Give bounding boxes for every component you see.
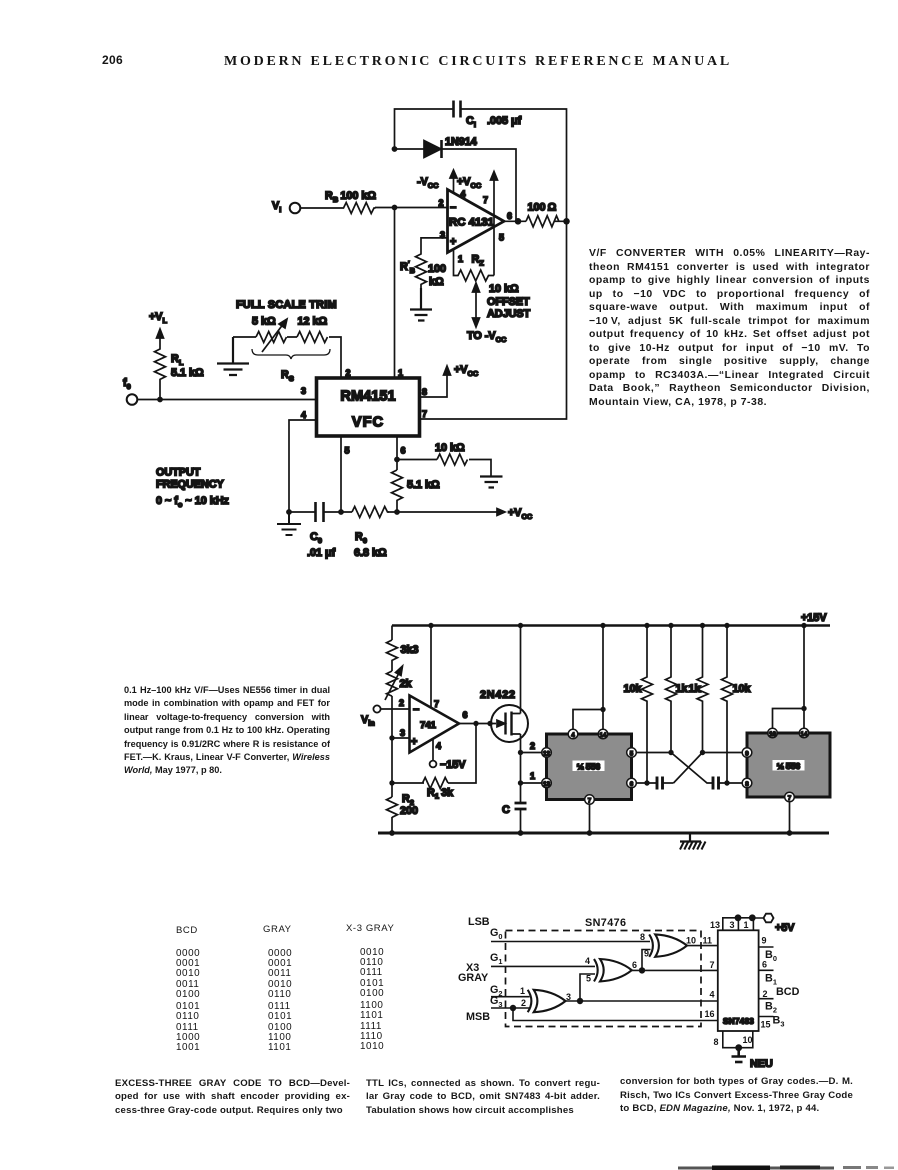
ground symbol NEU	[732, 1048, 773, 1070]
svg-text:6.8 kΩ: 6.8 kΩ	[354, 547, 387, 559]
wire f0 to pin3	[138, 399, 317, 401]
node feedback junction	[473, 721, 478, 726]
caption: excess-three col 1	[115, 1077, 350, 1118]
svg-text:OUTPUT: OUTPUT	[156, 467, 201, 479]
IC left half-556	[547, 734, 632, 800]
svg-text:2: 2	[763, 989, 768, 999]
truth table	[0, 0, 1, 1]
caption: excess-three col 2	[366, 1077, 600, 1118]
output wires right	[759, 947, 774, 1017]
resistor R'B 100k	[400, 252, 446, 288]
wire G3	[491, 1007, 530, 1009]
page title	[29, 54, 898, 70]
svg-text:CI .005 μf: CI .005 μf	[466, 115, 522, 129]
pin circles right 556	[742, 728, 809, 802]
node gate2 output	[639, 967, 645, 973]
wire gate3 output to pin11	[687, 945, 718, 947]
node C ground rail junction	[518, 830, 524, 836]
svg-text:.01 μf: .01 μf	[307, 547, 336, 559]
chassis ground symbol	[680, 833, 706, 850]
svg-text:5.1 kΩ: 5.1 kΩ	[407, 479, 440, 491]
wire pin5	[340, 436, 342, 512]
svg-text:7: 7	[788, 795, 792, 802]
svg-text:10k: 10k	[624, 683, 643, 695]
+VCC supply arrow pin7	[457, 172, 498, 276]
capacitor C0	[307, 502, 336, 559]
svg-text:1: 1	[520, 986, 525, 996]
resistor R2 200	[387, 793, 419, 817]
svg-text:10: 10	[743, 1035, 753, 1045]
svg-text:+VCC: +VCC	[508, 507, 533, 521]
wire pin7 to rail	[430, 626, 432, 709]
svg-text:+VCC: +VCC	[454, 364, 479, 378]
svg-text:6: 6	[463, 710, 468, 720]
resistor 5.1k vertical	[392, 470, 441, 512]
wire gate1 output to pin4	[566, 1000, 718, 1002]
svg-text:9: 9	[745, 751, 749, 758]
node: inverting input junction	[392, 205, 398, 211]
svg-text:RS: RS	[281, 369, 294, 383]
svg-text:GRAY: GRAY	[458, 972, 489, 984]
pin labels SN7483 right	[761, 936, 800, 1030]
svg-text:4: 4	[571, 732, 575, 739]
dashed box SN7476	[506, 931, 702, 1027]
terminal VI	[272, 200, 300, 214]
caption: 0.1Hz-100kHz V/F paragraph	[124, 684, 330, 778]
svg-text:−: −	[450, 202, 456, 214]
node RL junction	[157, 397, 163, 403]
svg-text:4: 4	[710, 990, 715, 1000]
svg-text:½ 556: ½ 556	[777, 761, 801, 771]
svg-text:RZ: RZ	[472, 254, 485, 268]
svg-text:6: 6	[632, 960, 637, 970]
svg-text:f0: f0	[123, 377, 131, 391]
input divider vertical wire	[391, 626, 393, 834]
svg-text:B3: B3	[773, 1015, 785, 1029]
svg-text:SN7476: SN7476	[585, 917, 626, 929]
resistor 12k	[297, 332, 328, 343]
svg-text:5: 5	[630, 751, 634, 758]
svg-text:7: 7	[422, 409, 427, 419]
XOR gate 1	[528, 990, 566, 1012]
wire gate2 output to pin7	[632, 969, 718, 971]
feedback wire + resistor R1 3k	[389, 724, 476, 801]
resistor RZ offset	[454, 250, 495, 281]
svg-text:R′B: R′B	[400, 259, 415, 275]
wire pins 10-14 tie to rail	[773, 626, 805, 729]
page number	[102, 53, 123, 67]
svg-text:14: 14	[801, 731, 808, 738]
svg-text:12 kΩ: 12 kΩ	[298, 316, 328, 328]
wire diode branch	[395, 149, 517, 222]
svg-text:9: 9	[762, 936, 767, 946]
capacitor C	[502, 803, 527, 833]
wire pin3	[421, 238, 448, 252]
svg-text:NEU: NEU	[750, 1058, 773, 1070]
resistor 1k #2	[689, 623, 709, 753]
wire right vertical to RM4151 pin7	[420, 221, 567, 419]
svg-text:6: 6	[401, 446, 406, 456]
node: diode-loop junction	[392, 146, 398, 152]
svg-text:R0: R0	[355, 531, 367, 545]
node pin13 branch junction	[518, 780, 523, 785]
svg-text:10k: 10k	[733, 683, 752, 695]
svg-text:2: 2	[399, 698, 404, 708]
wire pin8 +VCC	[420, 364, 479, 397]
svg-text:1k: 1k	[689, 683, 702, 695]
svg-text:+: +	[411, 736, 417, 748]
node: output right junction	[563, 218, 570, 225]
wire pin4	[289, 420, 317, 512]
svg-text:13: 13	[543, 781, 550, 788]
terminal f0	[123, 377, 137, 405]
resistor 1k #1	[666, 623, 689, 753]
svg-text:4: 4	[585, 956, 590, 966]
transistor 2N422 FET	[480, 689, 528, 742]
wire 10k branch	[397, 460, 491, 477]
pin circles left 556	[542, 729, 637, 804]
caption: excess-three col 3	[620, 1075, 853, 1116]
caption: V/F converter paragraph	[589, 247, 870, 410]
svg-text:C0: C0	[310, 531, 322, 545]
ground tie pins 8 10	[723, 1031, 753, 1048]
svg-text:200: 200	[400, 805, 418, 817]
svg-text:-VCC: -VCC	[417, 176, 439, 190]
svg-text:10 kΩ: 10 kΩ	[435, 442, 465, 454]
svg-text:8: 8	[745, 781, 749, 788]
svg-text:LSB: LSB	[468, 916, 490, 928]
svg-text:7: 7	[588, 798, 592, 805]
svg-text:SN7483: SN7483	[723, 1016, 754, 1026]
svg-text:B2: B2	[765, 1001, 777, 1015]
wire pin9 row	[703, 752, 743, 754]
svg-text:6: 6	[762, 960, 767, 970]
svg-text:5: 5	[499, 233, 504, 243]
input labels	[458, 916, 626, 1023]
node C0 left	[286, 509, 292, 515]
resistor 10k #1	[624, 623, 653, 783]
offset adjust arrow	[467, 283, 531, 344]
svg-text:12: 12	[543, 751, 550, 758]
svg-text:FREQUENCY: FREQUENCY	[156, 479, 225, 491]
svg-text:14: 14	[600, 732, 607, 739]
svg-text:100: 100	[428, 263, 446, 275]
page bottom scan artifact bar	[678, 1166, 894, 1170]
wire trim row	[233, 337, 341, 378]
svg-text:2: 2	[346, 368, 351, 378]
svg-text:G1: G1	[490, 952, 503, 966]
cross wire pin5 to right cap	[671, 753, 713, 784]
svg-text:+VCC: +VCC	[457, 176, 482, 190]
wire G2	[491, 996, 530, 998]
svg-text:16: 16	[705, 1009, 715, 1019]
wire G1	[491, 965, 595, 967]
svg-text:100 Ω: 100 Ω	[528, 202, 557, 214]
FET drain to rail	[520, 626, 522, 714]
wire MSB to pin16	[513, 1008, 718, 1021]
svg-text:B1: B1	[765, 973, 777, 987]
svg-text:BCD: BCD	[776, 986, 800, 998]
full scale trim labels	[236, 299, 337, 328]
svg-text:+15V: +15V	[801, 612, 827, 624]
svg-text:4: 4	[436, 741, 441, 751]
wire to pin12	[521, 752, 542, 754]
capacitor cross left	[657, 777, 674, 790]
svg-text:3k3: 3k3	[401, 644, 419, 656]
node R2 ground rail junction	[389, 830, 395, 836]
svg-text:+: +	[450, 236, 456, 248]
capacitor C1	[454, 101, 522, 130]
svg-text:11: 11	[703, 936, 713, 946]
op-amp 741	[399, 696, 468, 753]
svg-text:6: 6	[507, 211, 512, 221]
svg-text:2: 2	[439, 198, 444, 208]
svg-text:+5V: +5V	[775, 922, 795, 934]
op-amp U1 RC4131	[439, 189, 513, 264]
svg-text:−: −	[413, 704, 419, 716]
wire pin5 row	[636, 752, 671, 754]
svg-text:VI: VI	[272, 200, 281, 214]
svg-text:5 kΩ: 5 kΩ	[252, 316, 276, 328]
resistor 10k	[435, 442, 468, 465]
svg-text:8: 8	[422, 387, 427, 397]
diode 1N914	[424, 136, 477, 158]
wire gate1 out up to gate2 in5	[580, 974, 595, 1001]
svg-text:7: 7	[483, 195, 488, 205]
wire output row	[459, 723, 496, 725]
terminal Vin	[361, 705, 381, 727]
node C0 right pin5	[338, 509, 344, 515]
svg-text:FULL SCALE TRIM: FULL SCALE TRIM	[236, 299, 337, 311]
svg-text:1N914: 1N914	[445, 136, 477, 148]
svg-text:C: C	[502, 804, 510, 816]
wire pin7 right to ground rail	[789, 802, 791, 833]
svg-text:3: 3	[730, 920, 735, 930]
resistor 100 ohm	[526, 202, 559, 227]
svg-text:2k: 2k	[400, 678, 413, 690]
bottom row wire	[289, 511, 497, 513]
svg-text:15: 15	[761, 1020, 771, 1030]
arrowhead +VCC bottom	[497, 507, 533, 521]
svg-text:−15V: −15V	[440, 759, 466, 771]
node pin3 junction	[389, 735, 394, 740]
svg-text:5: 5	[586, 974, 591, 984]
brace RS	[252, 349, 330, 383]
IC right half-556	[747, 733, 830, 797]
svg-text:8: 8	[714, 1037, 719, 1047]
wire left vertical to RM4151 pin1	[394, 208, 396, 379]
wire G0	[491, 941, 650, 943]
svg-text:G0: G0	[490, 927, 503, 941]
svg-text:1k: 1k	[676, 683, 689, 695]
svg-text:Vin: Vin	[361, 714, 375, 728]
svg-text:RL: RL	[171, 353, 184, 367]
node R0 right pin6	[394, 509, 400, 515]
svg-text:RC 4131: RC 4131	[449, 217, 495, 229]
potentiometer 2k	[385, 666, 413, 700]
XOR gate 3	[649, 934, 687, 956]
RM4151 VFC block	[301, 368, 427, 456]
resistor R0 6.8k	[352, 507, 389, 560]
svg-text:6: 6	[630, 781, 634, 788]
wire pins 4-14 tie to rail	[573, 626, 603, 730]
svg-text:7: 7	[434, 699, 439, 709]
+5V tie pins 13 3 1	[723, 918, 764, 931]
-VCC supply arrow pin4	[417, 170, 457, 192]
svg-text:RM4151: RM4151	[340, 389, 395, 405]
svg-text:741: 741	[420, 720, 437, 731]
svg-text:+VL: +VL	[149, 311, 168, 325]
output frequency label	[156, 467, 230, 510]
svg-text:5.1 kΩ: 5.1 kΩ	[171, 367, 204, 379]
wire C1 top feedback loop	[395, 109, 567, 222]
svg-text:OFFSET: OFFSET	[487, 296, 530, 308]
svg-text:0 ~ fo ~ 10 kHz: 0 ~ fo ~ 10 kHz	[156, 495, 230, 509]
wire Vin to pin2	[381, 708, 410, 710]
resistor RL 5.1k	[155, 348, 205, 399]
svg-text:10: 10	[769, 731, 776, 738]
node: opamp output	[515, 218, 522, 225]
+VL supply arrow	[149, 311, 168, 348]
svg-text:MSB: MSB	[466, 1011, 490, 1023]
pin labels SN7483 left	[703, 936, 715, 1020]
wire pin6	[396, 436, 398, 470]
svg-text:kΩ: kΩ	[429, 276, 444, 288]
wire pin3	[392, 737, 410, 739]
node pin6-10k junction	[394, 457, 400, 463]
svg-text:1: 1	[530, 771, 535, 781]
ground below 10k	[480, 477, 503, 488]
svg-text:2: 2	[530, 741, 535, 751]
svg-text:2N422: 2N422	[480, 689, 516, 701]
wire output row	[504, 220, 567, 222]
svg-text:3: 3	[400, 728, 405, 738]
svg-text:4: 4	[461, 189, 466, 199]
wire pin6 row	[636, 782, 657, 784]
svg-text:13: 13	[710, 920, 720, 930]
svg-text:5: 5	[345, 446, 350, 456]
ground bottom rail	[378, 832, 829, 835]
svg-text:10: 10	[686, 936, 696, 946]
svg-text:VFC: VFC	[352, 415, 384, 431]
svg-text:RB 100 kΩ: RB 100 kΩ	[325, 190, 376, 204]
svg-text:½ 556: ½ 556	[577, 762, 601, 772]
FET source down	[520, 734, 522, 803]
+15V top rail	[392, 624, 830, 626]
node G3 MSB junction	[510, 1005, 516, 1011]
resistor RB 100k	[325, 190, 376, 214]
svg-text:1: 1	[398, 368, 403, 378]
potentiometer 5k	[256, 319, 287, 352]
IC SN7483 block	[718, 930, 759, 1031]
svg-text:8: 8	[640, 932, 645, 942]
resistor 10k #2	[722, 623, 752, 783]
resistor 3k3	[387, 640, 419, 662]
wire to pin13	[521, 782, 542, 784]
wire pin7 left to ground rail	[589, 804, 591, 833]
svg-text:1: 1	[458, 254, 463, 264]
capacitor cross right	[713, 777, 742, 790]
svg-text:R1 3k: R1 3k	[427, 787, 454, 801]
XOR gate 2	[594, 959, 632, 981]
cross wire pin9 to left cap	[674, 753, 703, 784]
svg-text:ADJUST: ADJUST	[487, 308, 531, 320]
node gate1 output	[577, 998, 583, 1004]
svg-text:9: 9	[644, 949, 649, 959]
wire VI to pin2	[301, 207, 448, 210]
svg-text:3: 3	[301, 386, 306, 396]
ground below C0 left	[277, 512, 301, 535]
+5V hex terminal	[764, 914, 796, 934]
wire gate2 out up to gate3 in9	[642, 950, 651, 971]
node pin12 branch junction	[518, 750, 523, 755]
ground below trim	[217, 337, 249, 375]
svg-text:4: 4	[301, 410, 306, 420]
svg-text:TO -VCC: TO -VCC	[467, 330, 507, 344]
pin4 -15V terminal	[430, 739, 467, 771]
svg-text:7: 7	[710, 960, 715, 970]
node gate junction	[487, 721, 492, 726]
svg-text:10 kΩ: 10 kΩ	[489, 283, 519, 295]
svg-text:2: 2	[521, 998, 526, 1008]
svg-text:1: 1	[744, 920, 749, 930]
ground below R'B	[410, 288, 432, 321]
